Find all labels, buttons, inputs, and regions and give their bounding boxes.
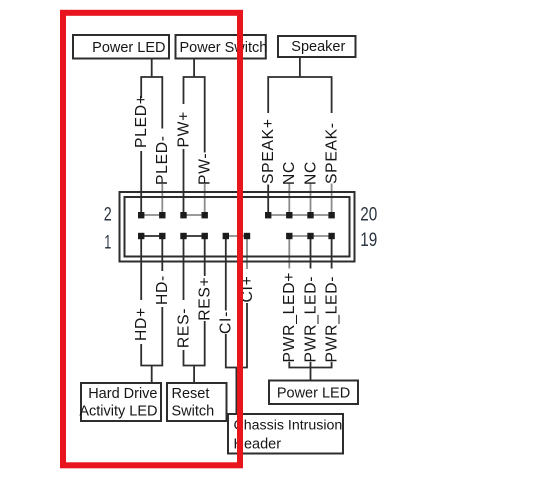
- svg-text:PWR_LED-: PWR_LED-: [302, 276, 319, 363]
- svg-text:PLED-: PLED-: [154, 135, 171, 185]
- svg-text:SPEAK-: SPEAK-: [323, 122, 340, 184]
- svg-text:Power LED: Power LED: [277, 386, 350, 402]
- svg-text:Chassis Intrusion: Chassis Intrusion: [234, 418, 343, 434]
- svg-text:20: 20: [360, 204, 377, 226]
- svg-text:HD-: HD-: [154, 275, 171, 305]
- svg-text:Reset: Reset: [172, 386, 210, 402]
- svg-text:1: 1: [104, 232, 111, 254]
- svg-text:Speaker: Speaker: [291, 39, 345, 55]
- svg-text:PW-: PW-: [197, 153, 214, 185]
- svg-text:RES-: RES-: [175, 308, 192, 348]
- svg-text:CI-: CI-: [218, 311, 235, 334]
- svg-text:Hard Drive: Hard Drive: [88, 386, 157, 402]
- svg-text:SPEAK+: SPEAK+: [260, 118, 277, 184]
- svg-text:Activity LED: Activity LED: [79, 404, 157, 420]
- svg-text:Switch: Switch: [172, 404, 215, 420]
- svg-text:RES+: RES+: [197, 277, 214, 321]
- svg-text:PWR_LED-: PWR_LED-: [323, 276, 340, 363]
- svg-text:NC: NC: [281, 161, 298, 185]
- svg-text:Power Switch: Power Switch: [180, 40, 268, 56]
- svg-text:HD+: HD+: [133, 307, 150, 341]
- svg-text:2: 2: [104, 204, 112, 226]
- svg-text:PWR_LED+: PWR_LED+: [281, 272, 298, 363]
- svg-text:19: 19: [360, 229, 377, 251]
- svg-text:PLED+: PLED+: [133, 94, 150, 148]
- svg-text:PW+: PW+: [175, 111, 192, 148]
- svg-text:Power LED: Power LED: [92, 40, 165, 56]
- svg-text:NC: NC: [302, 161, 319, 185]
